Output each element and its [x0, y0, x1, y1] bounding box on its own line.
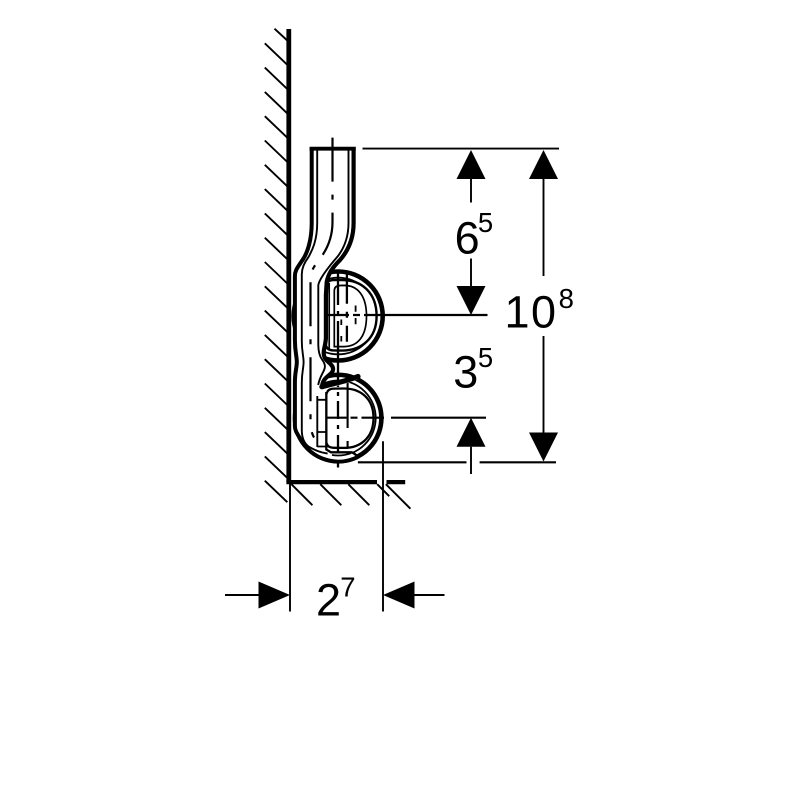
lower socket circle — [295, 375, 381, 461]
dim 65 top arrow — [457, 150, 486, 179]
socket common centerline vertical — [337, 273, 339, 468]
pipe right outer wall — [322, 147, 354, 387]
svg-text:6: 6 — [455, 213, 480, 264]
upper inner D — [334, 285, 366, 346]
upper circle centerline horizontal — [304, 314, 488, 316]
svg-text:3: 3 — [453, 346, 478, 397]
wall — [286, 29, 291, 482]
dim 27 left extension line — [289, 484, 291, 612]
svg-text:5: 5 — [478, 207, 493, 238]
bottom tangent extension line — [358, 461, 556, 463]
pipe body fill — [295, 147, 358, 462]
lower hidden-depth line — [347, 380, 349, 448]
lower thin circle — [301, 381, 376, 456]
floor — [286, 480, 377, 484]
upper outer D — [326, 280, 377, 351]
svg-text:2: 2 — [316, 575, 341, 626]
upper hidden-depth line — [346, 274, 348, 342]
dim 27 right extension line — [382, 441, 384, 611]
upper socket circle — [294, 272, 383, 361]
upper small dashes — [341, 306, 355, 342]
upper D inner-edge line — [328, 283, 330, 350]
dim 27 left arrow — [225, 594, 259, 596]
lower thin circle bottom arc redraw — [332, 453, 351, 455]
lower circle centerline horizontal — [301, 417, 489, 419]
dim 27 right arrow — [383, 582, 415, 609]
upper thin circle — [300, 278, 377, 355]
svg-text:8: 8 — [559, 283, 574, 314]
svg-text:7: 7 — [340, 572, 355, 603]
foot lip — [331, 452, 358, 457]
pipe inner right line lower segment — [316, 396, 318, 447]
pipe inner left line — [302, 149, 328, 454]
pipe top edge — [310, 147, 356, 151]
dim 65 bottom arrow — [470, 259, 472, 287]
top extension line — [363, 148, 560, 150]
pipe beak — [322, 377, 358, 387]
dim 108 top arrow — [529, 150, 558, 179]
dim 108 bottom arrow — [543, 336, 545, 433]
svg-text:10: 10 — [505, 286, 558, 337]
lower D — [326, 389, 373, 448]
wall hatching — [265, 29, 288, 503]
pipe centerline — [311, 138, 333, 438]
floor right segment — [387, 480, 406, 484]
dim 35 arrow — [457, 418, 486, 447]
pipe inner right line — [318, 149, 348, 385]
rib rungs — [317, 400, 326, 447]
pipe left outer wall — [295, 147, 358, 462]
lower D left edge (pipe boundary) — [326, 392, 331, 453]
svg-text:5: 5 — [478, 342, 493, 373]
floor hatching — [291, 484, 410, 509]
